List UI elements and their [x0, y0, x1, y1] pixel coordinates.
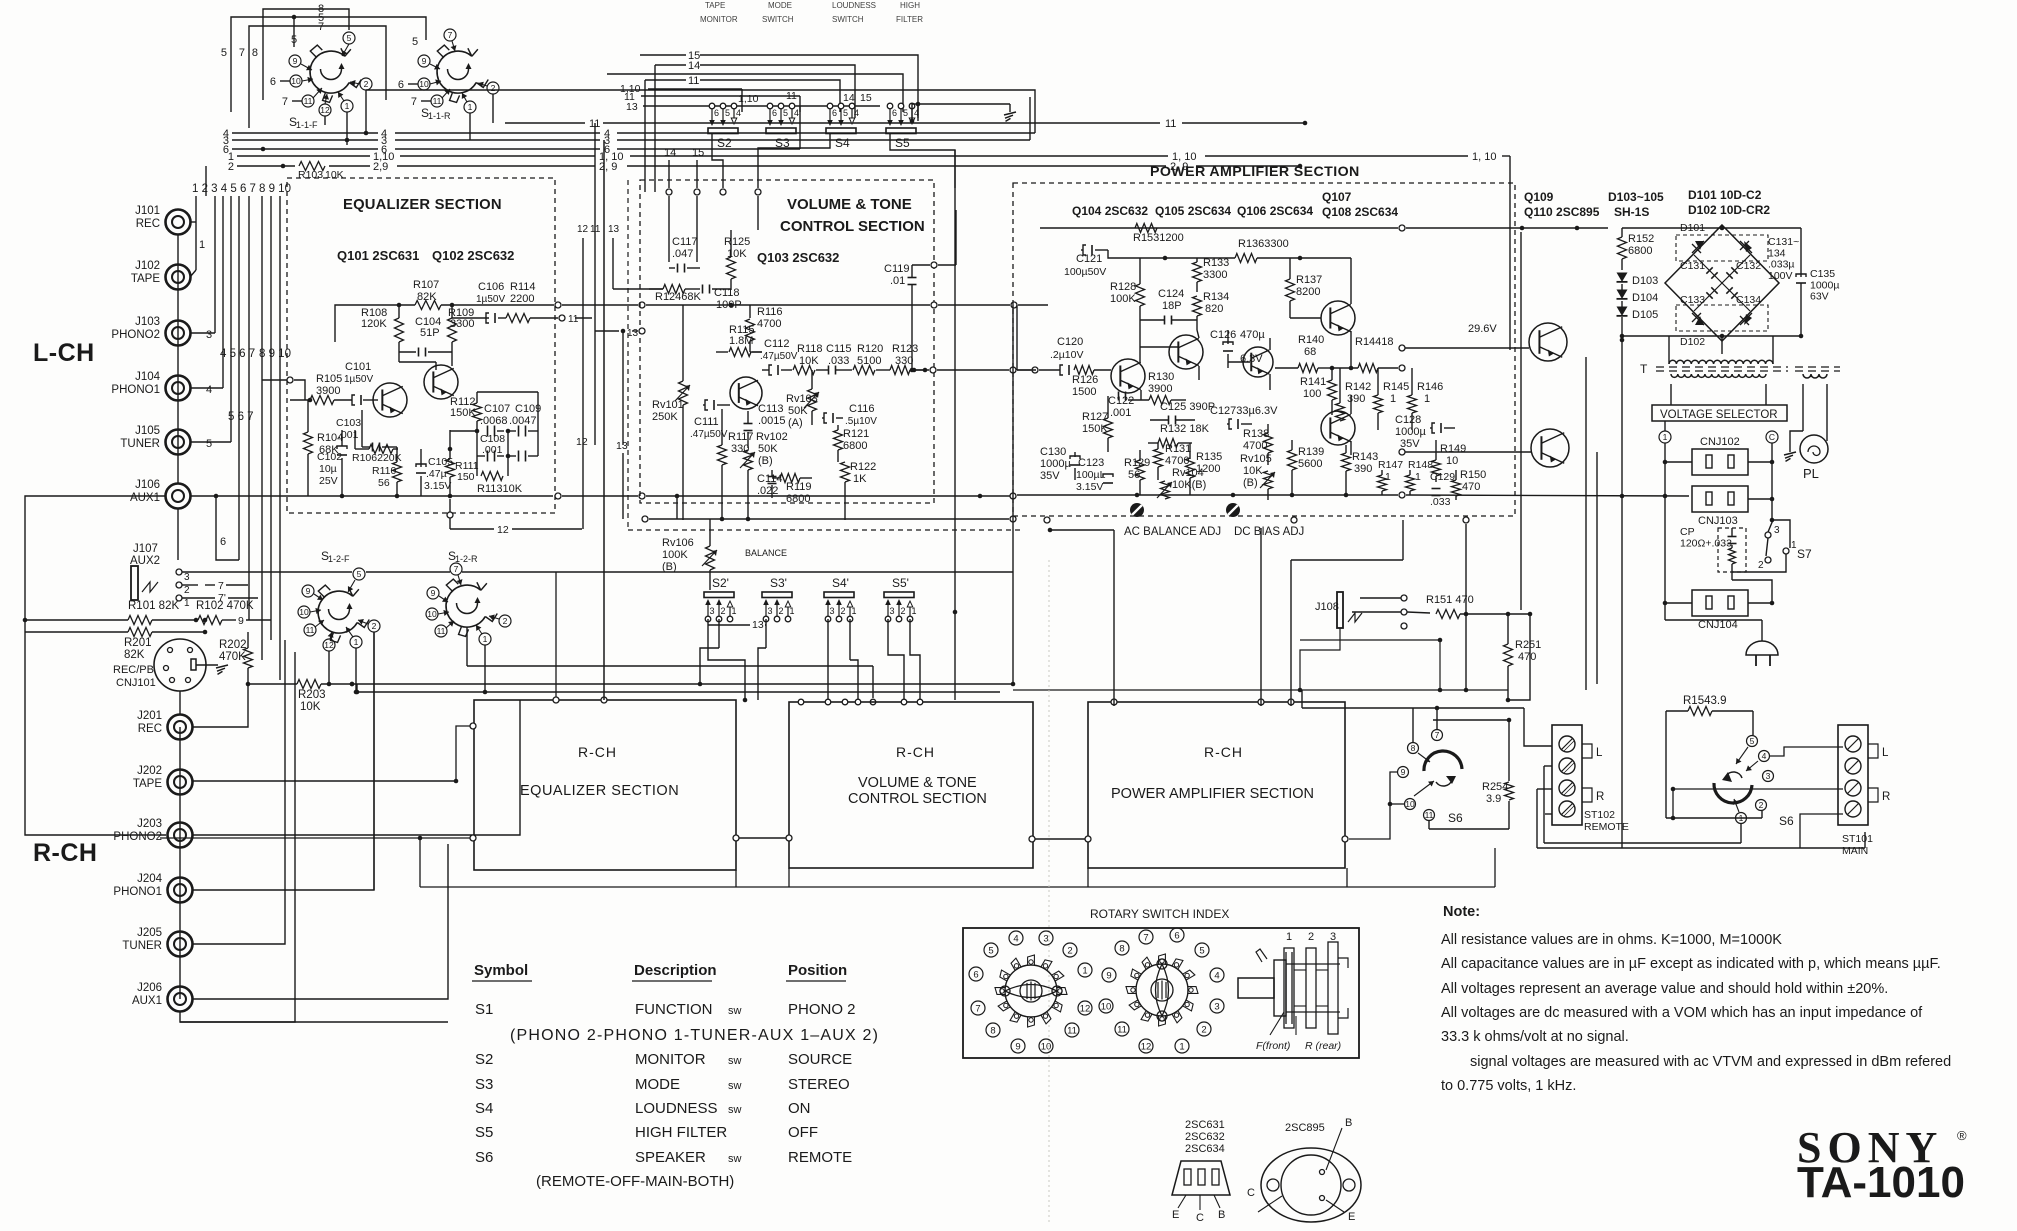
logo SONY: [1797, 1123, 1967, 1172]
svg-text:1-1-R: 1-1-R: [428, 111, 451, 121]
svg-text:1: 1: [1415, 471, 1421, 483]
svg-text:14: 14: [843, 92, 855, 104]
svg-text:5: 5: [206, 438, 212, 450]
svg-text:J106: J106: [135, 479, 160, 491]
wire J204 link: [192, 632, 374, 890]
svg-text:STEREO: STEREO: [788, 1076, 850, 1093]
svg-text:All resistance values are in o: All resistance values are in ohms. K=100…: [1441, 932, 1782, 948]
svg-text:8: 8: [1411, 743, 1416, 753]
svg-text:TAPE: TAPE: [705, 1, 725, 10]
bus row 4: [223, 90, 1035, 140]
rotary S1-2-F terminals: [298, 568, 380, 651]
svg-text:2: 2: [184, 585, 190, 596]
label 29.6V: [1468, 323, 1497, 335]
svg-text:100µ50V: 100µ50V: [1064, 266, 1106, 278]
transistor Q107 sym: [1290, 301, 1355, 335]
svg-text:T: T: [1640, 362, 1648, 376]
svg-text:15: 15: [692, 147, 704, 159]
svg-text:2: 2: [364, 79, 369, 89]
svg-text:R201: R201: [124, 637, 152, 649]
svg-text:2: 2: [372, 621, 377, 631]
index rotary front numbers: [969, 931, 1092, 1053]
svg-text:6: 6: [714, 108, 719, 118]
resistor R127: [1082, 396, 1113, 452]
svg-text:Position: Position: [788, 962, 847, 979]
resistor R131: [1154, 443, 1192, 480]
svg-text:®: ®: [1957, 1128, 1967, 1143]
svg-text:E: E: [1172, 1209, 1179, 1221]
index rotary front: [995, 955, 1067, 1027]
svg-text:J206: J206: [137, 982, 162, 994]
resistor R104: [304, 400, 344, 496]
svg-text:1200: 1200: [1196, 463, 1220, 475]
resistor R106: [352, 430, 402, 464]
switch S3': [762, 576, 795, 622]
svg-text:(PHONO 2-PHONO 1-TUNER-AUX 1–A: (PHONO 2-PHONO 1-TUNER-AUX 1–AUX 2): [510, 1027, 879, 1044]
package 2SC895 outline: [1247, 1117, 1361, 1223]
svg-text:10: 10: [419, 79, 429, 89]
svg-text:POWER AMPLIFIER SECTION: POWER AMPLIFIER SECTION: [1111, 786, 1314, 802]
vol box connection ocs: [786, 699, 1035, 842]
bridge inner capacitors C131-C134: [1680, 255, 1761, 311]
svg-text:100K: 100K: [1110, 293, 1136, 305]
resistor R202: [203, 618, 253, 684]
svg-text:R-CH: R-CH: [896, 744, 935, 760]
bus row 1,10: [228, 151, 1510, 163]
wires S6 left to ST102: [1302, 690, 1865, 848]
transistor Q110 sym: [1399, 429, 1569, 467]
wire J106 left branch: [25, 496, 166, 592]
svg-text:100µL: 100µL: [1076, 469, 1106, 481]
svg-text:Q106 2SC634: Q106 2SC634: [1237, 204, 1313, 218]
svg-text:6: 6: [973, 969, 978, 980]
svg-text:.47µ: .47µ: [426, 468, 447, 480]
capacitor C120 resistor R126: [1039, 336, 1111, 398]
svg-text:J202: J202: [137, 765, 162, 777]
svg-text:D103~105: D103~105: [1608, 190, 1664, 204]
resistor R144: [1332, 336, 1405, 373]
svg-text:5: 5: [1199, 945, 1204, 956]
box R-CH power amplifier section: [1088, 702, 1345, 868]
resistor R130: [1128, 371, 1186, 405]
svg-text:R137: R137: [1296, 274, 1322, 286]
svg-text:R120: R120: [857, 343, 883, 355]
svg-text:C130: C130: [1040, 446, 1066, 458]
svg-text:10: 10: [427, 609, 437, 619]
wire power box bottom ocs: [1044, 517, 1469, 523]
svg-text:1,10: 1,10: [738, 93, 759, 105]
svg-text:10K: 10K: [727, 248, 747, 260]
svg-text:Q108 2SC634: Q108 2SC634: [1322, 205, 1398, 219]
svg-text:11: 11: [304, 96, 313, 106]
svg-text:S3': S3': [770, 576, 787, 590]
svg-text:Description: Description: [634, 962, 717, 979]
capacitor C121: [1064, 245, 1167, 278]
diode D102 dashed box: [1676, 305, 1768, 348]
svg-text:11: 11: [1425, 810, 1434, 820]
resistor R109: [448, 305, 475, 352]
switch S4: [826, 103, 859, 150]
svg-text:10K(B): 10K(B): [1172, 479, 1206, 491]
svg-text:1: 1: [912, 606, 917, 616]
capacitor C125: [1150, 401, 1215, 425]
wire bridge sides: [1620, 334, 1804, 848]
svg-text:C126: C126: [1210, 329, 1236, 341]
resistor R150: [1452, 469, 1487, 500]
transistor Q102: [424, 365, 458, 399]
svg-text:134: 134: [1768, 247, 1786, 259]
svg-text:AUX1: AUX1: [132, 995, 162, 1007]
svg-text:C125 390P: C125 390P: [1160, 401, 1215, 413]
wire J201 link: [25, 632, 248, 835]
svg-text:9: 9: [238, 615, 244, 627]
connector CNJ103: [1663, 486, 1775, 527]
jack column R-CH wires: [179, 727, 181, 999]
svg-text:C128: C128: [1395, 414, 1421, 426]
svg-text:Rv102: Rv102: [756, 431, 788, 443]
svg-text:470: 470: [1518, 651, 1536, 663]
svg-text:5600: 5600: [1298, 458, 1322, 470]
svg-text:7: 7: [454, 564, 459, 574]
svg-text:2200: 2200: [510, 293, 534, 305]
svg-text:R11310K: R11310K: [477, 483, 523, 495]
svg-text:LOUDNESS: LOUDNESS: [832, 1, 876, 10]
rotary S6 right: [1714, 736, 1794, 829]
svg-text:33.3 k ohms/volt at no signal.: 33.3 k ohms/volt at no signal.: [1441, 1029, 1629, 1045]
svg-text:C112: C112: [764, 338, 789, 350]
svg-text:TAPE: TAPE: [133, 778, 163, 790]
svg-text:SWITCH: SWITCH: [832, 15, 864, 24]
svg-text:VOLUME & TONE: VOLUME & TONE: [787, 196, 912, 213]
svg-text:13: 13: [627, 328, 639, 339]
terminal strip ST102: [1552, 725, 1629, 833]
svg-text:7: 7: [239, 47, 245, 59]
svg-text:R251: R251: [1515, 639, 1541, 651]
table row (PHONO 2-PHONO 1-T: [510, 1027, 879, 1044]
rotary S1-1-F terminal 10: [270, 75, 313, 88]
svg-text:EQUALIZER SECTION: EQUALIZER SECTION: [520, 783, 679, 799]
svg-text:51P: 51P: [420, 327, 440, 339]
svg-text:10: 10: [291, 76, 301, 86]
resistor R134: [1193, 291, 1230, 330]
resistor R251: [1504, 612, 1542, 700]
svg-text:SPEAKER: SPEAKER: [635, 1149, 706, 1166]
svg-text:R148: R148: [1408, 459, 1433, 471]
svg-text:R141: R141: [1300, 376, 1326, 388]
svg-text:C119: C119: [884, 263, 909, 275]
rotary S1-2-R terminals: [426, 563, 511, 645]
resistor R143: [1342, 445, 1379, 495]
eq box connection ocs: [470, 697, 739, 841]
svg-text:1: 1: [1179, 1041, 1184, 1052]
label L-CH: [33, 339, 95, 367]
CP dashed network: [1680, 526, 1746, 572]
svg-text:9: 9: [1106, 970, 1111, 981]
svg-text:8: 8: [252, 47, 258, 59]
svg-text:R128: R128: [1110, 281, 1136, 293]
svg-text:J203: J203: [137, 818, 162, 830]
svg-text:sw: sw: [728, 1153, 742, 1165]
svg-text:11: 11: [688, 75, 699, 87]
jack J101 REC: [135, 205, 190, 235]
svg-text:.033: .033: [828, 355, 849, 367]
svg-text:EQUALIZER SECTION: EQUALIZER SECTION: [343, 197, 502, 213]
bus row 3: [223, 97, 1030, 147]
terminal strip ST101: [1838, 725, 1890, 857]
resistor R105 and capacitor C101: [290, 361, 378, 405]
table row (REMOTE-OFF-MAIN-B: [536, 1173, 734, 1190]
svg-text:2SC895: 2SC895: [1285, 1122, 1325, 1134]
wire CNJ103 to S7: [1732, 518, 1790, 572]
pilot lamp PL: [1784, 384, 1828, 481]
svg-text:1K: 1K: [853, 473, 867, 485]
svg-text:3: 3: [1774, 525, 1780, 536]
svg-text:10: 10: [1446, 455, 1458, 467]
svg-text:R105: R105: [316, 373, 342, 385]
svg-text:sw: sw: [728, 1055, 742, 1067]
wire bottom long rails: [180, 150, 1508, 1022]
svg-text:4: 4: [1214, 970, 1219, 981]
wire J104 tap 4: [190, 384, 223, 396]
svg-text:C102: C102: [317, 451, 342, 463]
svg-text:Q109: Q109: [1524, 190, 1554, 204]
svg-text:.2µ10V: .2µ10V: [1050, 349, 1084, 361]
svg-text:3: 3: [206, 329, 212, 341]
svg-text:6: 6: [892, 108, 897, 118]
svg-text:7: 7: [411, 96, 417, 108]
svg-text:R118: R118: [797, 343, 822, 355]
rotary S1-1-F terminal 12: [319, 94, 331, 125]
svg-text:C124: C124: [1158, 288, 1184, 300]
svg-text:63V: 63V: [1810, 291, 1829, 303]
svg-text:FUNCTION: FUNCTION: [635, 1001, 713, 1018]
resistor R115: [716, 324, 762, 357]
svg-text:82K: 82K: [124, 649, 145, 661]
svg-text:R135: R135: [1196, 451, 1222, 463]
capacitor C119: [884, 210, 956, 372]
svg-text:REMOTE: REMOTE: [788, 1149, 852, 1166]
svg-text:AUX1: AUX1: [130, 492, 160, 504]
svg-text:4: 4: [1762, 751, 1767, 761]
svg-text:9: 9: [422, 56, 427, 66]
svg-text:C116: C116: [849, 403, 874, 415]
svg-text:C111: C111: [694, 416, 719, 428]
svg-text:B: B: [1218, 1209, 1225, 1221]
wire bridge top to rail: [1622, 225, 1801, 271]
svg-text:S1: S1: [475, 1001, 493, 1018]
svg-text:10K: 10K: [300, 701, 321, 713]
svg-text:R140: R140: [1298, 334, 1324, 346]
svg-text:11: 11: [433, 96, 442, 106]
svg-text:R117: R117: [728, 431, 753, 443]
svg-text:2SC634: 2SC634: [1185, 1143, 1225, 1155]
rotary S1-1-R terminal 10: [398, 78, 441, 91]
svg-text:(B): (B): [758, 455, 773, 467]
svg-text:J103: J103: [135, 316, 160, 328]
svg-text:ROTARY SWITCH INDEX: ROTARY SWITCH INDEX: [1090, 907, 1229, 921]
svg-text:5: 5: [783, 108, 788, 118]
capacitor C103: [336, 410, 397, 452]
wire sw bus 15: [640, 50, 918, 118]
wire 869 mid drop: [1300, 638, 1442, 693]
svg-text:6: 6: [832, 108, 837, 118]
svg-text:R203: R203: [298, 689, 326, 701]
svg-text:R130: R130: [1148, 371, 1174, 383]
capacitor C122: [1108, 392, 1134, 420]
wire 13 label lower: [708, 619, 766, 631]
svg-text:MAIN: MAIN: [1842, 845, 1868, 857]
wire J105 tap 5: [190, 438, 231, 450]
svg-text:5: 5: [988, 945, 993, 956]
transistor Q101: [373, 383, 407, 417]
svg-text:C109: C109: [515, 403, 541, 415]
svg-text:sw: sw: [728, 1104, 742, 1116]
wire J108 ground link: [1298, 628, 1340, 692]
svg-text:.001: .001: [1110, 407, 1131, 419]
capacitor C126: [1210, 329, 1265, 368]
svg-text:PHONO2: PHONO2: [113, 831, 162, 843]
svg-text:S6: S6: [1448, 811, 1463, 825]
svg-text:R149: R149: [1440, 443, 1466, 455]
resistor R137: [1286, 258, 1323, 318]
svg-text:R14418: R14418: [1355, 336, 1394, 348]
resistor R151: [1407, 594, 1532, 619]
svg-text:R1543.9: R1543.9: [1683, 695, 1726, 707]
svg-text:All voltages are dc measured w: All voltages are dc measured with a VOM …: [1441, 1005, 1923, 1021]
wire 14 15 into volume: [664, 147, 704, 262]
svg-text:S5: S5: [895, 136, 910, 150]
svg-text:390: 390: [1347, 393, 1365, 405]
svg-text:12: 12: [497, 524, 509, 536]
svg-text:10K: 10K: [1243, 465, 1263, 477]
table row S2: [475, 1051, 852, 1068]
AC balance screws: [1130, 503, 1240, 517]
package 2SC631 outline: [1172, 1119, 1230, 1224]
jack J107 AUX2: [130, 543, 1013, 609]
svg-text:C135: C135: [1810, 268, 1835, 280]
svg-text:8: 8: [1119, 943, 1124, 954]
svg-text:2: 2: [1067, 945, 1072, 956]
svg-text:.047: .047: [672, 248, 693, 260]
svg-text:R152: R152: [1628, 233, 1654, 245]
svg-text:7: 7: [1143, 932, 1148, 943]
svg-text:1: 1: [732, 606, 737, 616]
svg-text:Rv105: Rv105: [1240, 453, 1272, 465]
svg-text:1000µ: 1000µ: [1395, 426, 1426, 438]
svg-text:120K: 120K: [361, 318, 387, 330]
svg-text:R133: R133: [1203, 257, 1229, 269]
svg-text:C123: C123: [1078, 457, 1104, 469]
jack J204 PHONO1: [113, 873, 192, 903]
svg-text:.0047: .0047: [509, 415, 537, 427]
rotary switch S1-2-R: [446, 549, 497, 636]
svg-text:1: 1: [345, 101, 350, 111]
svg-text:1: 1: [1390, 393, 1396, 405]
outer dashed box left: [628, 180, 1020, 530]
capacitor C124: [1140, 288, 1197, 325]
resistor R101: [23, 600, 196, 625]
svg-text:R-CH: R-CH: [33, 839, 98, 867]
svg-text:PL: PL: [1803, 466, 1819, 481]
svg-text:LOUDNESS: LOUDNESS: [635, 1100, 718, 1117]
jack J104 PHONO1: [111, 371, 190, 401]
resistor R117: [718, 409, 754, 520]
svg-text:10: 10: [1101, 1001, 1112, 1012]
svg-text:HIGH FILTER: HIGH FILTER: [635, 1124, 727, 1141]
svg-text:J204: J204: [137, 873, 163, 885]
wire vertical x604: [603, 140, 605, 700]
wire sw bus mid: [607, 74, 903, 112]
svg-text:1-2-F: 1-2-F: [328, 554, 350, 564]
labels Q104-Q108: [1072, 190, 1398, 219]
svg-text:REC: REC: [138, 723, 162, 735]
svg-text:12: 12: [1141, 1041, 1152, 1052]
svg-text:L: L: [1596, 747, 1603, 759]
svg-text:12: 12: [576, 436, 588, 448]
svg-text:470K: 470K: [219, 651, 246, 663]
table row S5: [475, 1124, 818, 1141]
svg-text:VOLTAGE SELECTOR: VOLTAGE SELECTOR: [1660, 409, 1778, 421]
connector CNJ102: [1663, 436, 1775, 475]
svg-text:9: 9: [1015, 1041, 1020, 1052]
svg-text:1: 1: [790, 606, 795, 616]
svg-text:CP: CP: [1680, 526, 1695, 538]
svg-text:7: 7: [218, 580, 224, 592]
svg-text:390: 390: [1354, 463, 1372, 475]
jack J103 PHONO2: [111, 316, 190, 346]
svg-text:10: 10: [1405, 799, 1415, 809]
svg-text:MODE: MODE: [635, 1076, 680, 1093]
svg-text:Q110 2SC895: Q110 2SC895: [1524, 205, 1600, 219]
resistor R118: [790, 343, 822, 375]
wire long 684: [350, 682, 1013, 687]
wire CP bottom: [1732, 572, 1772, 603]
svg-text:1: 1: [354, 637, 359, 647]
capacitor C102: [317, 430, 347, 496]
svg-text:25V: 25V: [319, 475, 338, 487]
wire eq out 12: [447, 499, 582, 536]
svg-text:R103: R103: [298, 169, 323, 181]
svg-text:S5': S5': [892, 576, 909, 590]
bus vertical wires 1-10: [196, 166, 280, 680]
svg-text:4700: 4700: [757, 318, 781, 330]
switch S7: [1758, 520, 1812, 571]
svg-text:CNJ103: CNJ103: [1698, 515, 1738, 527]
svg-text:MONITOR: MONITOR: [635, 1051, 706, 1068]
svg-text:.033: .033: [1430, 496, 1451, 508]
bus row 2,9 with resistor R103: [228, 161, 1302, 181]
svg-text:(A): (A): [788, 417, 803, 429]
svg-text:C131: C131: [1680, 260, 1705, 272]
resistor R124 capacitor C118: [649, 285, 742, 312]
svg-text:8 9 10: 8 9 10: [259, 348, 291, 360]
wire J202 link: [192, 779, 458, 784]
svg-text:1.8M: 1.8M: [729, 335, 753, 347]
label 5 left vertical: [221, 47, 231, 112]
svg-text:PHONO1: PHONO1: [113, 886, 162, 898]
equalizer section dashed box: [287, 178, 555, 513]
svg-text:R116: R116: [757, 306, 782, 318]
svg-text:8: 8: [990, 1025, 995, 1036]
resistor R116: [746, 305, 783, 352]
wire right labels 1,10 11 13: [620, 83, 880, 113]
resistor R153: [1133, 224, 1184, 245]
capacitor C111: [690, 400, 730, 440]
svg-text:ON: ON: [788, 1100, 811, 1117]
ground top right: [910, 104, 1016, 123]
svg-text:1: 1: [468, 102, 473, 112]
svg-text:D102 10D-CR2: D102 10D-CR2: [1688, 203, 1770, 217]
